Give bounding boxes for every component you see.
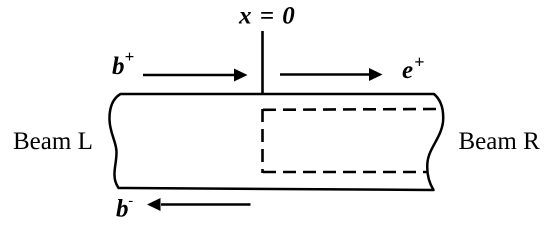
svg-text:Beam R: Beam R — [459, 128, 541, 155]
interface line at x = 0 — [261, 31, 264, 94]
arrow e+ (rightward) — [280, 68, 383, 81]
dashed region: bottom dashed edge — [263, 171, 427, 174]
dashed region: left vertical dashed edge — [261, 109, 264, 173]
svg-text:x = 0: x = 0 — [238, 3, 296, 30]
arrow b+ (rightward) — [143, 69, 248, 82]
arrow b- (leftward) — [147, 198, 251, 211]
svg-text:Beam L: Beam L — [13, 128, 93, 155]
dashed region: top dashed edge — [263, 108, 437, 111]
beam outline (top edge, right break wave, bottom edge, left break wave) — [109, 94, 443, 190]
